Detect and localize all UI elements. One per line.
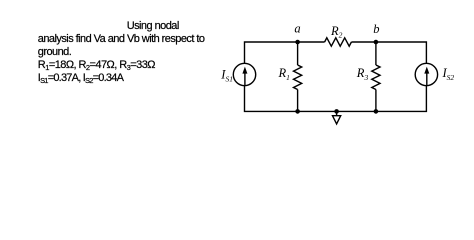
resistor R2 zigzag [325, 38, 352, 46]
resistor R1 zigzag [294, 65, 302, 90]
ground stub wire [336, 111, 338, 115]
wire bottom rail between R1 and R3 [298, 110, 376, 112]
IS1 arrow [242, 67, 247, 86]
node b junction dot [374, 40, 379, 45]
wire bottom-right: IS2 bottom down to bottom rail to R3 bottom [376, 86, 427, 112]
svg-text:b: b [373, 22, 379, 36]
junction dot R3 bottom [374, 109, 379, 114]
wire node b to top-right rail down to IS2 top [376, 42, 427, 63]
wire node a down to R1 top [297, 42, 299, 65]
node a junction dot [295, 40, 300, 45]
current source IS1 circle [233, 63, 255, 85]
svg-text:a: a [294, 22, 300, 36]
svg-text:IS2: IS2 [442, 66, 455, 82]
wire node b down to R3 top [375, 42, 377, 65]
wire node a to R2 left [298, 41, 325, 43]
wire R3 bottom to bottom rail [375, 90, 377, 112]
ground symbol (open triangle) [333, 116, 341, 124]
resistor R3 zigzag [372, 65, 380, 90]
IS2 arrow [424, 67, 429, 86]
svg-text:IS1: IS1 [220, 68, 233, 84]
wire top-left: node a to left rail down to IS1 top [245, 42, 298, 63]
current source IS2 circle [415, 63, 437, 85]
svg-text:R1: R1 [278, 66, 290, 82]
svg-text:R2: R2 [330, 24, 343, 40]
wire R2 right to node b [351, 41, 376, 43]
svg-text:R3: R3 [356, 66, 369, 82]
junction dot R1 bottom [295, 109, 300, 114]
junction dot ground node [334, 109, 339, 114]
wire R1 bottom to bottom rail [297, 90, 299, 112]
wire bottom-left: IS1 bottom down to bottom rail to R1 bottom [245, 86, 298, 112]
